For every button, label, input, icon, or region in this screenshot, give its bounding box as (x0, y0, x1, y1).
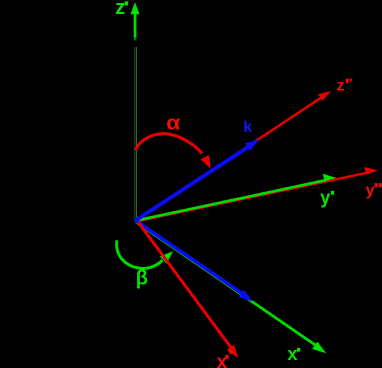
x'' axis (red) (138, 222, 238, 358)
svg-text:k: k (243, 119, 252, 136)
svg-text:x: x (217, 352, 228, 368)
svg-text:x: x (287, 344, 297, 364)
y'' axis (red) (136, 167, 378, 222)
y' axis (green) (136, 174, 336, 221)
svg-text:α: α (166, 113, 181, 135)
svg-text:z: z (337, 78, 345, 95)
label y' (320, 188, 334, 208)
z' arrow (bright green) (131, 2, 140, 37)
svg-text:z: z (115, 0, 125, 19)
label y'' (366, 182, 382, 199)
label x' (287, 344, 300, 364)
z axis shaft (dark green, shaded) (134, 38, 137, 222)
k vector (blue) (136, 139, 260, 220)
x' axis (green) (136, 222, 326, 353)
svg-text:β: β (136, 268, 148, 290)
angle alpha arc (red) (135, 134, 210, 169)
label x'' (217, 350, 233, 368)
angle beta arc (green) (117, 240, 173, 268)
svg-text:y: y (366, 182, 375, 199)
z'' axis (red) (136, 91, 331, 221)
label z' (115, 0, 128, 19)
svg-text:y: y (320, 188, 330, 208)
node line arrow along x' (blue) (136, 221, 253, 302)
label z'' (337, 78, 352, 95)
